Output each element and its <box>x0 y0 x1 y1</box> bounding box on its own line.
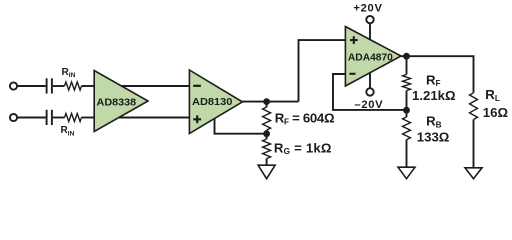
wire RF1 to node B <box>266 130 268 134</box>
wire U1 top output to U2 <box>122 85 190 87</box>
svg-text:1.21kΩ: 1.21kΩ <box>412 88 456 103</box>
wire RL to ground <box>473 120 475 168</box>
wire RG to ground <box>266 159 268 166</box>
U3 minus sign <box>349 73 355 75</box>
resistor RG (1k ohm) <box>263 139 271 158</box>
wire node B down <box>266 134 268 139</box>
svg-text:+20V: +20V <box>353 3 382 15</box>
svg-text:RG = 1kΩ: RG = 1kΩ <box>274 140 332 156</box>
capacitor C2 <box>47 110 52 125</box>
op-amp U2 AD8130 <box>189 70 242 134</box>
wire C1 to RIN1 <box>53 85 65 87</box>
wire U2 feedback pin to node B <box>215 119 266 134</box>
svg-text:ADA4870: ADA4870 <box>348 52 393 63</box>
resistor RF2 (1.21k ohm) <box>403 75 411 91</box>
resistor RL (16 ohm) <box>470 93 478 120</box>
wire RIN2 to U1 <box>82 117 95 119</box>
wire node C down <box>406 110 408 117</box>
node C (RF2/RB junction) <box>403 107 410 114</box>
wire U3 +20V pin <box>369 23 371 39</box>
wire U2 output <box>242 101 299 103</box>
resistor RF1 (604 ohm) <box>263 107 271 130</box>
resistor RIN2 <box>65 114 82 122</box>
svg-text:AD8130: AD8130 <box>192 97 232 108</box>
wire node D down <box>406 56 408 74</box>
U2 plus sign <box>193 115 201 123</box>
U2 minus sign <box>193 85 201 87</box>
capacitor C1 <box>47 78 52 93</box>
op-amp U1 AD8338 <box>94 71 148 132</box>
svg-text:AD8338: AD8338 <box>97 98 137 109</box>
svg-text:133Ω: 133Ω <box>417 130 450 145</box>
wire U1 bottom output to U2 <box>119 117 189 119</box>
wire node A down <box>266 102 268 108</box>
wire U3 minus input feedback to node C <box>333 74 405 110</box>
resistor RIN1 <box>65 82 82 90</box>
+20V terminal circle <box>366 16 373 23</box>
wire J2 to C2 <box>17 117 45 119</box>
ground G2 <box>398 167 415 179</box>
wire node A up to U3 plus input <box>299 40 346 102</box>
wire J1 to C1 <box>17 85 45 87</box>
input terminal J2 (bottom) <box>10 114 17 121</box>
wire U3 -20V pin <box>369 72 371 88</box>
-20V terminal circle <box>366 88 373 95</box>
op-amp U3 ADA4870 <box>345 27 401 87</box>
wire RF2 to node C <box>406 91 408 111</box>
wire U3 output <box>401 56 474 93</box>
node A (U2 output junction) <box>263 98 270 105</box>
resistor RB (133 ohm) <box>403 117 411 140</box>
ground G3 <box>465 168 482 179</box>
wire RB to ground <box>406 140 408 168</box>
node D (U3 output junction) <box>403 53 410 60</box>
node B (RF1/RG junction) <box>263 130 270 137</box>
svg-text:16Ω: 16Ω <box>483 105 509 120</box>
svg-text:RF = 604Ω: RF = 604Ω <box>275 111 335 127</box>
wire C2 to RIN2 <box>53 117 65 119</box>
U3 plus sign <box>350 36 358 44</box>
wire RIN1 to U1 <box>82 85 95 87</box>
ground G1 <box>258 165 275 179</box>
input terminal J1 (top) <box>10 82 17 89</box>
